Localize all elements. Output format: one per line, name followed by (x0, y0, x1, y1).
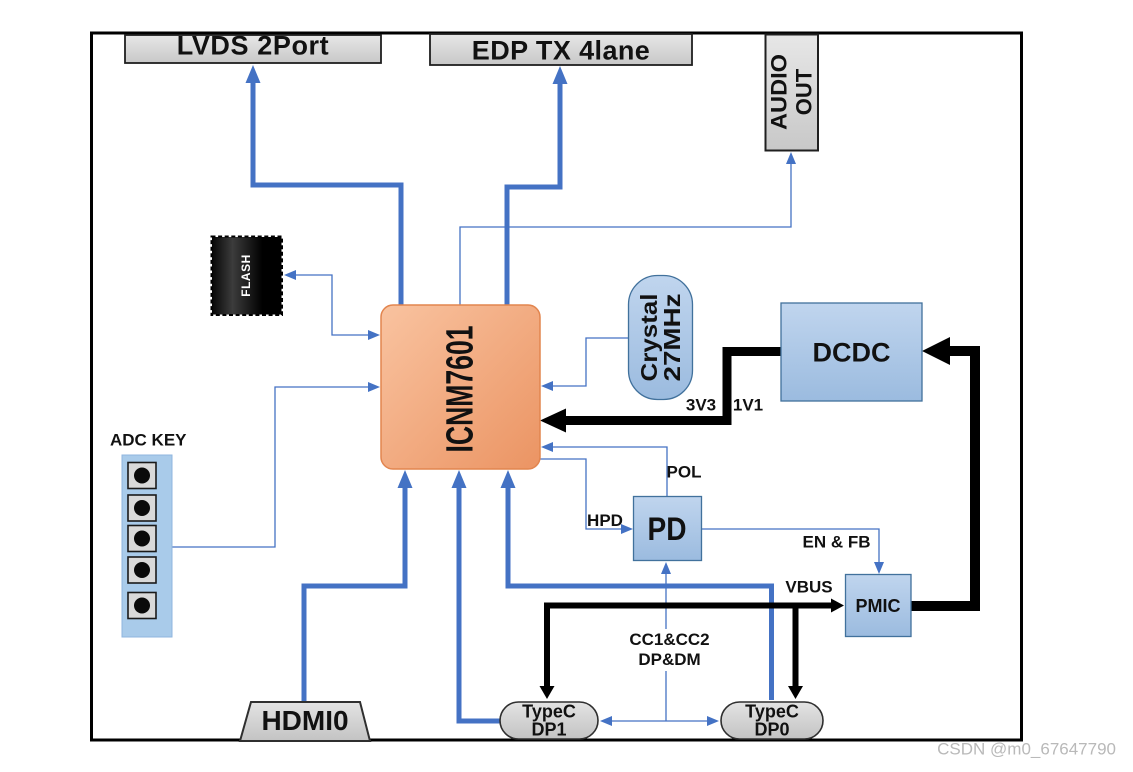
svg-text:HDMI0: HDMI0 (261, 705, 348, 736)
ADC KEY block (122, 455, 172, 637)
box PMIC (846, 575, 912, 637)
svg-text:1V1: 1V1 (733, 396, 763, 415)
svg-text:EN & FB: EN & FB (803, 533, 871, 552)
svg-text:VBUS: VBUS (785, 578, 832, 597)
svg-text:EDP TX 4lane: EDP TX 4lane (472, 36, 650, 66)
wire HDMI (thick blue) (304, 486, 405, 703)
svg-text:HPD: HPD (587, 511, 623, 530)
svg-text:LVDS 2Port: LVDS 2Port (177, 31, 330, 61)
wire EN FB: PD to PMIC (thin blue) (701, 529, 879, 565)
crystal 27MHz (629, 276, 693, 400)
wire chip to TypeC DP0 (thick blue) (508, 486, 772, 700)
key button 4 (128, 557, 156, 583)
connector TypeC DP0 (721, 702, 823, 739)
wire VBUS (thick black) (547, 606, 832, 688)
svg-text:ICNM7601: ICNM7601 (440, 326, 482, 453)
wire crystal to chip (thin blue) (550, 338, 629, 386)
svg-text:AUDIO: AUDIO (767, 54, 792, 130)
svg-text:3V3: 3V3 (686, 396, 716, 415)
wire LVDS (thick blue) (253, 81, 401, 305)
svg-text:PMIC: PMIC (856, 596, 901, 616)
wire ADC key to chip (thin blue) (172, 387, 371, 547)
label CC1 CC2 DP DM (622, 629, 717, 671)
key button 1 (128, 463, 156, 489)
connector TypeC DP1 (500, 702, 598, 739)
wire TypeC DP1 to chip (thick blue) (459, 486, 500, 721)
wire CC1 CC2 to PD (thin blue) (665, 572, 667, 721)
svg-text:DP&DM: DP&DM (638, 650, 700, 669)
wire PMIC to DCDC (thick black) (911, 351, 975, 606)
box PD (634, 497, 702, 561)
chip ICNM7601 (381, 305, 540, 469)
svg-text:DCDC: DCDC (813, 338, 891, 368)
svg-text:TypeC: TypeC (522, 702, 576, 722)
wire EDP (thick blue) (507, 81, 560, 305)
svg-text:27MHz: 27MHz (659, 294, 685, 382)
box LVDS 2Port (125, 35, 381, 63)
wire between TypeC DP1 and DP0 (thin blue, both arrows) (609, 720, 710, 722)
svg-text:TypeC: TypeC (745, 702, 799, 722)
svg-text:CC1&CC2: CC1&CC2 (629, 630, 709, 649)
svg-text:FLASH: FLASH (239, 254, 253, 297)
box FLASH (212, 237, 283, 316)
box AUDIO OUT (766, 35, 819, 151)
svg-text:POL: POL (667, 463, 702, 482)
connector HDMI0 (trapezoid) (240, 702, 370, 741)
box EDP TX 4lane (430, 34, 692, 65)
svg-text:OUT: OUT (792, 68, 817, 115)
wire audio out (thin blue) (460, 163, 791, 305)
wire 3V3 1V1 power DCDC to chip (thick black) (566, 352, 781, 421)
key button 2 (128, 495, 156, 521)
wire flash-chip (thin blue, both arrows) (293, 275, 371, 335)
key button 5 (128, 593, 156, 619)
svg-text:DP0: DP0 (754, 720, 789, 740)
wire POL: PD to chip (thin blue) (550, 447, 667, 498)
key button 3 (128, 526, 156, 552)
border frame (92, 33, 1022, 740)
box DCDC (781, 303, 922, 401)
svg-text:ADC KEY: ADC KEY (110, 431, 187, 450)
wire HPD: chip to PD (thin blue) (540, 459, 624, 529)
svg-text:PD: PD (648, 511, 687, 547)
svg-text:CSDN @m0_67647790: CSDN @m0_67647790 (937, 740, 1116, 759)
svg-text:DP1: DP1 (531, 720, 566, 740)
